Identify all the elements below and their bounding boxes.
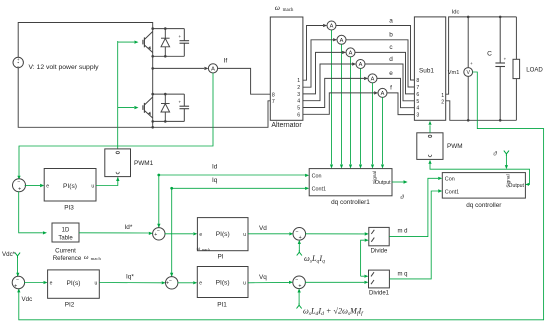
svg-text:ω: ω [275, 3, 280, 12]
svg-text:u: u [243, 280, 246, 286]
arrowhead Vdc into sum [17, 288, 20, 292]
ammeter If [208, 64, 217, 73]
arrowhead Id into S1 [157, 224, 160, 228]
svg-text:Cont1: Cont1 [312, 186, 326, 192]
block Alternator [270, 17, 303, 120]
svg-text:Vd: Vd [259, 225, 267, 232]
label Con right [445, 177, 455, 183]
svg-text:A: A [371, 77, 375, 83]
ammeter Ad [356, 60, 365, 69]
svg-text:+: + [298, 284, 301, 290]
Vdc* source terminator [15, 253, 20, 258]
svg-text:e: e [46, 184, 49, 190]
svg-text:A: A [349, 51, 353, 57]
label dq controller1 [331, 199, 370, 206]
svg-text:C: C [487, 51, 492, 58]
svg-text:4: 4 [297, 99, 300, 105]
IGBT group2 top rail [153, 93, 185, 95]
diode D2 [161, 94, 170, 121]
svg-text:e: e [199, 232, 202, 238]
svg-text:+: + [470, 61, 473, 66]
arrowhead Vq into S7 [289, 281, 293, 284]
wire S6 to Divide in1 [305, 233, 364, 235]
Divide1 slashes [371, 272, 374, 284]
wire omega term2 up [298, 290, 300, 304]
1D Table text [58, 228, 73, 242]
label Iq [212, 177, 218, 184]
svg-text:dq controller1: dq controller1 [331, 199, 370, 206]
term1 source terminator [297, 250, 302, 255]
block PI [197, 218, 248, 251]
svg-text:Cont1: Cont1 [445, 189, 459, 195]
wire Output loop to PWM [430, 164, 530, 184]
wire Iq* to sum S5 [99, 282, 161, 284]
label omega_s Lq Iq [304, 254, 325, 265]
svg-text:PI(s): PI(s) [216, 231, 230, 238]
label Sub1 [419, 68, 434, 75]
svg-text:d: d [389, 56, 393, 63]
svg-text:+: + [18, 186, 21, 192]
label Vq [259, 274, 267, 281]
label PI1 [217, 302, 227, 309]
svg-text:e: e [389, 70, 393, 77]
svg-text:mach: mach [283, 8, 294, 13]
svg-text:Vdc: Vdc [22, 296, 33, 303]
arrowhead Iq into S5 [170, 273, 173, 277]
svg-text:Reference: Reference [53, 255, 82, 262]
label Id [212, 164, 218, 171]
wire S7 to Divide1 in2 [305, 281, 364, 283]
svg-text:−: − [295, 229, 298, 235]
svg-text:Divide: Divide [371, 248, 388, 254]
svg-text:f: f [390, 85, 392, 92]
label Cont1 left [312, 186, 326, 192]
svg-text:If: If [224, 58, 228, 65]
PWM1 bottom glyph [116, 172, 119, 174]
voltmeter plus mark [470, 61, 473, 66]
block PI3 [44, 169, 96, 202]
Divide slashes [371, 230, 374, 242]
svg-text:b: b [389, 32, 393, 39]
svg-text:1: 1 [441, 93, 444, 99]
diode D1 [161, 29, 170, 57]
arrowhead term1 into S6 [298, 240, 301, 244]
IGBT Q1 [118, 29, 153, 57]
svg-text:8: 8 [416, 78, 419, 84]
arrowhead measurement e into dq controller1 [371, 165, 374, 169]
wire phase e to Sub1 [377, 78, 414, 107]
label Vdc [22, 296, 33, 303]
svg-text:V: 12 volt power supply: V: 12 volt power supply [29, 64, 100, 71]
svg-text:A: A [211, 67, 215, 73]
wire S1 to PI [165, 233, 193, 235]
sum junction S6 Vd [293, 228, 306, 242]
wire link to Divide1 in1 [361, 275, 365, 277]
PI1 ports and text [199, 280, 246, 287]
label Id* [125, 224, 133, 231]
svg-text:A: A [381, 91, 385, 97]
svg-text:u: u [243, 232, 246, 238]
PWM right bottom glyph [428, 155, 431, 157]
arrowhead into Output port [525, 183, 529, 186]
block 1D Table [52, 223, 79, 242]
label Cont1 right [445, 189, 459, 195]
wire load branch top [515, 17, 517, 59]
wire V+ top to bridge [18, 23, 153, 58]
svg-text:a: a [389, 17, 393, 24]
arrowhead Iq into Cont1 [305, 187, 309, 190]
wire measurement d drop [360, 69, 362, 165]
svg-text:PI1: PI1 [217, 302, 227, 309]
svg-text:dq controller: dq controller [466, 202, 502, 209]
arrowhead into PI [193, 232, 197, 235]
svg-text:PI3: PI3 [64, 204, 74, 211]
arrowhead theta into wire [505, 165, 508, 169]
wire phase a to Sub1 [336, 26, 414, 81]
wire m d [389, 178, 438, 236]
arrowhead Iq* into S5 [162, 281, 166, 284]
block Divide1 [369, 270, 390, 288]
wire Iq feedback [172, 188, 306, 276]
label Signal right rotated [506, 174, 512, 187]
capacitor C1 [179, 29, 190, 57]
arrowhead measurement f into dq controller1 [381, 165, 384, 169]
svg-text:A: A [359, 62, 363, 68]
svg-text:ω: ω [84, 254, 89, 261]
wire PWM top to Sub1 bottom [429, 125, 431, 133]
svg-text:2: 2 [441, 100, 444, 106]
ammeter Ac [346, 48, 355, 57]
junction dots group1 [151, 27, 166, 57]
label omega_mach table [84, 254, 102, 261]
capacitor C dc [495, 17, 506, 120]
arrowhead bus into sum PI3 [17, 176, 20, 180]
svg-text:A: A [330, 24, 334, 30]
arrowhead measurement c into dq controller1 [349, 165, 352, 169]
sum junction S3 before PI3 [13, 179, 26, 193]
wire S3 to PI3 [25, 185, 40, 187]
svg-text:Divide1: Divide1 [369, 291, 390, 297]
wire Sub1 port2 to DC- rail [446, 101, 517, 121]
label phase a [389, 17, 393, 24]
wire phase b to Sub1 [346, 40, 414, 87]
junction dots group2 [151, 93, 166, 123]
load block LOAD [513, 59, 520, 78]
label Vm1 [448, 70, 460, 76]
svg-text:−: − [16, 277, 19, 283]
junction mid node [151, 67, 154, 70]
svg-text:−: − [295, 277, 298, 283]
wire PI3 to PWM1 [96, 177, 118, 185]
label Iq* [126, 274, 134, 281]
svg-text:Current: Current [55, 247, 76, 254]
wire phase d to Sub1 [365, 64, 414, 101]
sum junction S5 Iq [166, 277, 178, 289]
label m d [398, 228, 408, 234]
label omega_mach alternator [275, 3, 294, 13]
label Output right [508, 183, 524, 189]
svg-text:LOAD: LOAD [526, 67, 543, 74]
svg-text:Con: Con [445, 177, 455, 183]
svg-text:mach: mach [91, 256, 102, 261]
sum junction S4 Vdc [12, 276, 24, 289]
arrowhead measurement a into dq controller1 [330, 165, 333, 169]
label PWM1 [134, 160, 154, 167]
voltmeter Vm1 [464, 68, 473, 77]
svg-text:4: 4 [416, 106, 419, 112]
arrowhead into ammeter d [352, 62, 356, 65]
svg-text:Id: Id [212, 164, 218, 171]
wire S3 down to table [19, 192, 43, 233]
label LOAD [526, 67, 543, 74]
arrowhead Id into Con [305, 174, 309, 177]
wire Sub1 port1 to DC+ rail [446, 17, 517, 94]
block dq controller1 [309, 169, 392, 196]
label phase b [389, 32, 393, 39]
svg-text:+: + [179, 100, 182, 105]
arrowhead into Divide in2 [365, 239, 369, 242]
svg-text:+: + [179, 34, 182, 39]
block PWM1 [105, 149, 131, 177]
wire mid node to ammeter If [153, 67, 205, 69]
PWM right top glyph [428, 135, 431, 137]
wire Vdc* to sum S4 [17, 258, 19, 276]
voltmeter branch wire [467, 17, 469, 120]
label PI [217, 253, 223, 260]
arrowhead into 1D table [43, 231, 47, 234]
label phase d [389, 56, 393, 63]
wire measurement c drop [350, 57, 352, 164]
wire phase a from alternator [303, 26, 323, 81]
capacitor C2 [179, 94, 190, 121]
svg-text:−: − [17, 180, 20, 186]
svg-text:ωsLqIq: ωsLqIq [304, 254, 325, 265]
junction bottom rail [151, 126, 154, 129]
svg-text:m q: m q [398, 271, 408, 277]
IGBT group2 bottom rail [153, 120, 185, 122]
ammeter Ae [368, 74, 377, 83]
arrowhead into If ammeter [204, 67, 208, 70]
svg-text:1: 1 [297, 78, 300, 84]
label Con left [312, 173, 322, 179]
arrowhead into PI3 [40, 184, 44, 187]
wire phase b from alternator [303, 40, 333, 87]
label Divide [371, 248, 388, 254]
arrowhead into ammeter e [364, 77, 368, 80]
ammeter Aa [327, 21, 336, 30]
voltage source V 12V [13, 57, 23, 69]
wire phase f to Sub1 [387, 93, 414, 115]
svg-text:−: − [169, 278, 172, 284]
wire load branch bottom [515, 79, 517, 121]
svg-text:PI(s): PI(s) [216, 280, 230, 287]
wire gate drive vertical [117, 41, 119, 149]
svg-text:3: 3 [416, 113, 419, 119]
svg-text:6: 6 [297, 112, 300, 118]
arrowhead into PWM bottom [428, 160, 431, 164]
label V: 12 volt power supply [29, 64, 100, 71]
label omega_mach PI [197, 246, 210, 252]
PI3 ports and text [46, 183, 94, 190]
svg-text:V: V [466, 70, 470, 76]
svg-text:7: 7 [416, 85, 419, 91]
svg-text:+: + [17, 57, 20, 62]
svg-text:mach: mach [202, 248, 210, 252]
label theta right [493, 151, 497, 158]
svg-text:6: 6 [416, 92, 419, 98]
PI2 ports and text [50, 280, 98, 287]
wire S4 to PI2 [24, 282, 43, 284]
svg-text:m d: m d [398, 228, 408, 234]
svg-text:2: 2 [297, 85, 300, 91]
wire measurement e drop [372, 83, 374, 164]
label phase c [389, 44, 393, 51]
svg-text:Idc: Idc [452, 10, 460, 16]
svg-text:A: A [340, 38, 344, 44]
arrowhead into ammeter c [342, 51, 346, 54]
label Output left [375, 180, 391, 186]
wire phase e from alternator [303, 78, 364, 107]
wire phase c to Sub1 [355, 52, 414, 94]
alternator port numbers 1-6 [297, 78, 300, 118]
svg-text:+: + [299, 235, 302, 241]
wire measurement f drop [382, 97, 384, 164]
PI ports and text [199, 231, 246, 238]
wire phase c from alternator [303, 52, 342, 94]
arrowhead into Sub1 bottom [428, 121, 431, 125]
label Signal left rotated [372, 171, 378, 184]
arrowhead into ammeter b [333, 38, 337, 41]
wire V- bottom rail [18, 68, 270, 128]
wire Divide in2 link [361, 240, 365, 276]
arrowhead into ammeter a [323, 24, 327, 27]
svg-text:Alternator: Alternator [271, 122, 302, 129]
wire Vq [248, 281, 289, 283]
svg-text:3: 3 [297, 92, 300, 98]
label Current Reference [53, 247, 82, 262]
wire phase f from alternator [303, 93, 374, 114]
svg-text:Output: Output [508, 183, 524, 189]
Sub1 port numbers 8-3 [416, 78, 419, 119]
junction dots DC rails [467, 16, 502, 122]
svg-text:Id*: Id* [125, 224, 133, 231]
arrowhead into Divide1 in1 [364, 275, 368, 278]
sum junction S7 Vq [293, 276, 306, 290]
svg-text:1D: 1D [62, 228, 70, 234]
svg-text:PWM1: PWM1 [134, 160, 154, 167]
label omega_s Ld Id term [303, 307, 364, 318]
svg-text:Vdc*: Vdc* [2, 251, 16, 258]
wire If to alternator port8 [218, 68, 271, 94]
label phase e [389, 70, 393, 77]
svg-text:Output: Output [375, 180, 391, 186]
svg-text:PI2: PI2 [65, 302, 75, 309]
wire Id* to sum S1 [79, 232, 149, 234]
wire m q [389, 191, 438, 279]
block dq controller [442, 173, 525, 199]
label PI2 [65, 302, 75, 309]
svg-text:e: e [199, 280, 202, 286]
arrowhead Vdc* into S4 [16, 273, 19, 277]
wire S5 to PI1 [178, 282, 193, 284]
label Vdc* [2, 251, 16, 258]
svg-text:7: 7 [272, 99, 275, 105]
arrowhead into Divide1 in2 [364, 281, 368, 284]
svg-text:u: u [91, 184, 94, 190]
svg-text:ω: ω [197, 246, 201, 252]
svg-text:+: + [14, 284, 17, 290]
arrowhead into Divide in1 [365, 232, 369, 235]
wire Vm1 measurement to bottom bus [19, 72, 544, 320]
svg-text:Iq*: Iq* [126, 274, 134, 281]
arrowhead m d into Con [438, 177, 442, 180]
svg-text:e: e [50, 281, 53, 287]
label PI3 [64, 204, 74, 211]
label If [224, 58, 228, 65]
svg-text:+: + [504, 57, 507, 62]
label Alternator [271, 122, 302, 129]
svg-text:Vm1: Vm1 [448, 70, 460, 76]
label dq controller [466, 202, 502, 209]
arrowhead Vd into S6 [289, 232, 293, 235]
svg-text:8: 8 [272, 92, 275, 98]
wire Id feedback [159, 175, 305, 228]
arrowhead into PWM1 bottom [116, 177, 119, 181]
wire phase d from alternator [303, 64, 352, 101]
sum junction S1 Id [153, 228, 165, 240]
alternator port numbers 8 7 [272, 92, 275, 105]
IGBT group1 top rail [153, 28, 185, 30]
arrowhead into ammeter f [374, 91, 378, 94]
wire measurement b drop [341, 44, 343, 164]
IGBT Q2 [118, 94, 153, 122]
arrowhead measurement d into dq controller1 [359, 165, 362, 169]
wire group2 to bottom rail [152, 121, 154, 127]
svg-text:PI(s): PI(s) [63, 183, 77, 190]
term2 source terminator [297, 303, 302, 308]
arrowhead into PI1 [193, 281, 197, 284]
wire dq1 output [392, 181, 403, 183]
svg-text:Vq: Vq [259, 274, 267, 281]
wire If measurement bus [19, 73, 213, 180]
label m q [398, 271, 408, 277]
svg-text:PI: PI [217, 253, 223, 260]
wire measurement a drop [331, 30, 333, 164]
wire Vd [248, 233, 289, 235]
block PI1 [197, 267, 248, 298]
label PWM right [447, 143, 463, 150]
Sub1 port numbers 1 2 [441, 93, 444, 105]
junction dot Id branch [157, 174, 160, 177]
svg-text:+: + [154, 232, 157, 238]
arrowhead dq1 output [404, 180, 408, 183]
wire omega term1 up [298, 241, 300, 251]
label Vd [259, 225, 267, 232]
ammeter Af [378, 88, 387, 97]
arrowhead m q into Cont1 [438, 189, 442, 192]
svg-text:5: 5 [416, 99, 419, 105]
svg-text:u: u [95, 281, 98, 287]
label C dc [487, 51, 492, 58]
svg-text:Con: Con [312, 173, 322, 179]
svg-text:PI(s): PI(s) [67, 280, 81, 287]
svg-text:5: 5 [297, 106, 300, 112]
arrowhead term2 into S7 [298, 288, 301, 292]
label theta left [400, 194, 404, 201]
block Divide [369, 227, 389, 245]
wire bridge mid leg [152, 56, 154, 94]
arrowhead into PI2 [44, 281, 48, 284]
